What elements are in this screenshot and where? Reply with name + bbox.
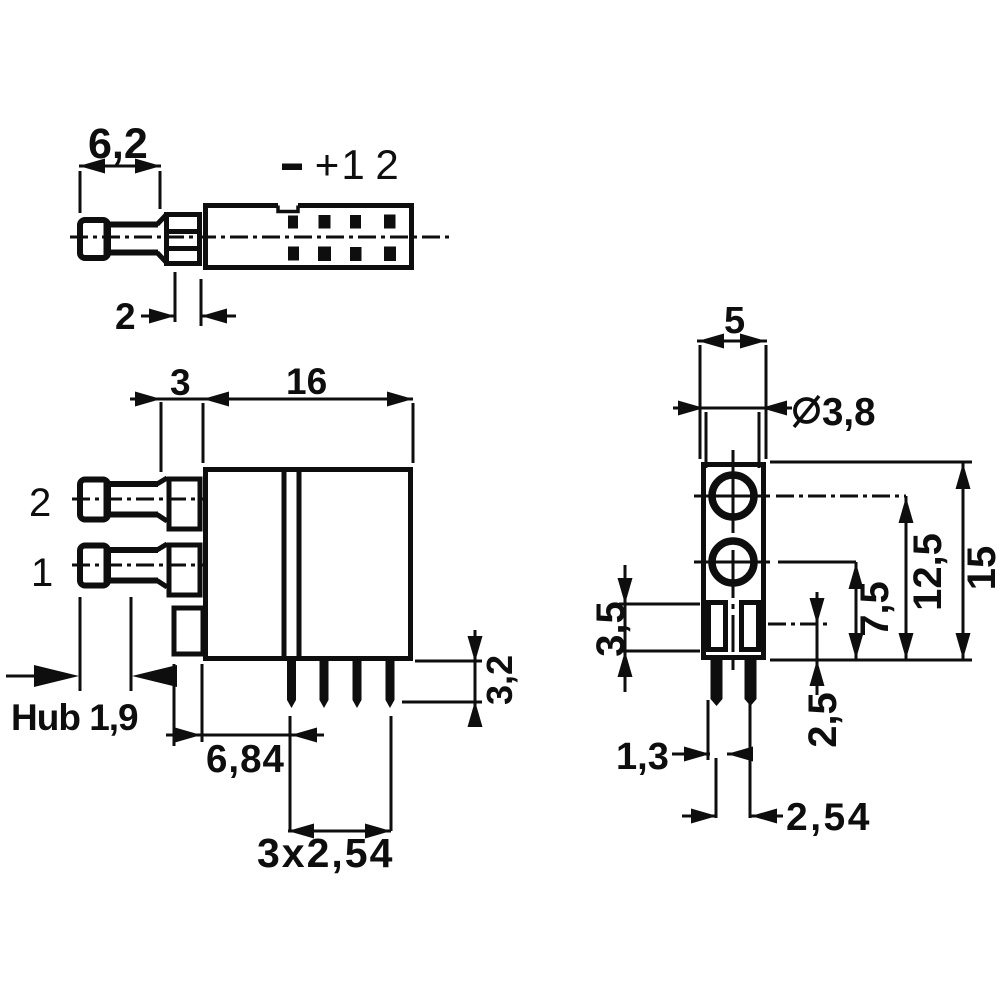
right view LED 1 centerline [694, 495, 906, 498]
LED hole 1 [712, 475, 754, 517]
dimension 2,5 [801, 592, 845, 748]
top view body notch [278, 200, 298, 212]
svg-text:6,84: 6,84 [206, 738, 285, 781]
top view plunger collar [167, 215, 201, 264]
svg-text:2: 2 [115, 296, 136, 337]
slot left [709, 603, 726, 650]
svg-text:16: 16 [286, 361, 327, 402]
svg-text:1: 1 [31, 551, 53, 595]
dimension diameter 3,8 [673, 391, 876, 468]
svg-text:3,2: 3,2 [479, 655, 520, 705]
top view centerline [70, 236, 450, 239]
right view top extension line [770, 461, 972, 464]
LED hole 2 [712, 541, 754, 583]
right view bottom extension line [770, 659, 972, 662]
side view inner partition lines [284, 469, 299, 659]
side view centerline plunger 2 [72, 498, 203, 501]
dimension 1,3 [616, 700, 753, 778]
dimension Hub 1,9 [6, 597, 177, 738]
svg-text:1: 1 [341, 141, 364, 188]
svg-text:2: 2 [375, 141, 398, 188]
right view LED 2 centerline [694, 561, 856, 564]
top view plunger cap [80, 220, 108, 258]
dimension 6,2 [79, 120, 161, 213]
dimension 3,5 [589, 565, 700, 692]
side view plunger 1 [80, 544, 200, 595]
right view vertical centerline [732, 450, 735, 670]
svg-text:2,5: 2,5 [801, 692, 845, 748]
dimension 15 [956, 462, 1000, 660]
dimension 2,54 [682, 700, 872, 839]
svg-text:3x2,54: 3x2,54 [257, 830, 394, 876]
slot right [742, 603, 759, 650]
svg-text:12,5: 12,5 [906, 533, 950, 611]
side view body [206, 470, 411, 659]
right view body [704, 465, 764, 658]
top view plunger flare [157, 215, 166, 262]
svg-text:7,5: 7,5 [853, 581, 897, 637]
right view slot centerline [768, 623, 829, 626]
svg-text:2: 2 [29, 481, 51, 525]
svg-text:3,8: 3,8 [822, 391, 876, 434]
svg-text:6,2: 6,2 [88, 120, 148, 168]
dimension 3,2 [402, 630, 520, 727]
pin labels - + 1 2 [282, 141, 399, 188]
dimension 2 (top view) [115, 272, 236, 337]
right view pins [711, 660, 757, 706]
top view body [206, 206, 412, 268]
dimension 3 and 16 [130, 361, 413, 472]
side view centerline plunger 1 [72, 564, 203, 567]
side view plunger 2 [80, 478, 200, 529]
dimension 6,84 [166, 664, 324, 781]
svg-text:Hub 1,9: Hub 1,9 [11, 697, 138, 738]
side view bottom protrusion [174, 608, 203, 654]
svg-text:15: 15 [960, 546, 1000, 591]
top view plunger shaft [108, 225, 158, 253]
svg-text:2,54: 2,54 [786, 796, 872, 839]
svg-text:3,5: 3,5 [589, 601, 633, 657]
svg-text:1,3: 1,3 [616, 736, 669, 778]
dimension 5 [697, 300, 767, 459]
top view contact dots [288, 215, 396, 262]
svg-text:+: + [315, 141, 340, 188]
side view pins [287, 661, 395, 708]
svg-text:3: 3 [170, 362, 191, 403]
svg-text:5: 5 [724, 300, 745, 342]
dimension 12,5 [899, 496, 951, 660]
dimension 7,5 [849, 562, 898, 660]
dimension 3x2,54 [257, 716, 394, 876]
